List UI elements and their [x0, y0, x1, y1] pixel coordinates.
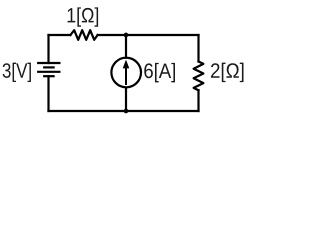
wire right vertical top (to R2) — [197, 35, 199, 62]
node junction dot top — [124, 33, 129, 38]
battery V1 — [37, 63, 60, 76]
label: source I1 value "6[A]" — [144, 63, 175, 83]
label: source V1 value "3[V]" — [3, 63, 31, 82]
label: resistor R1 value "1[Ω]" — [68, 7, 99, 26]
label: resistor R2 value "2[Ω]" — [211, 63, 244, 83]
wire left vertical bottom (from battery) — [47, 76, 49, 111]
wire left vertical top (to battery) — [47, 35, 49, 63]
wire top-left horizontal segment — [49, 34, 71, 36]
wire top-right horizontal segment — [98, 34, 199, 36]
node junction dot bottom — [124, 109, 129, 114]
wire right vertical bottom (from R2) — [197, 90, 199, 111]
resistor R1 zigzag — [70, 30, 97, 40]
wire current-source top lead — [125, 35, 127, 58]
wire bottom horizontal — [49, 110, 199, 112]
wire current-source bottom lead — [125, 88, 127, 111]
current source I1 arrow — [123, 60, 130, 85]
resistor R2 zigzag — [194, 62, 204, 91]
current source I1 circle — [111, 58, 141, 88]
